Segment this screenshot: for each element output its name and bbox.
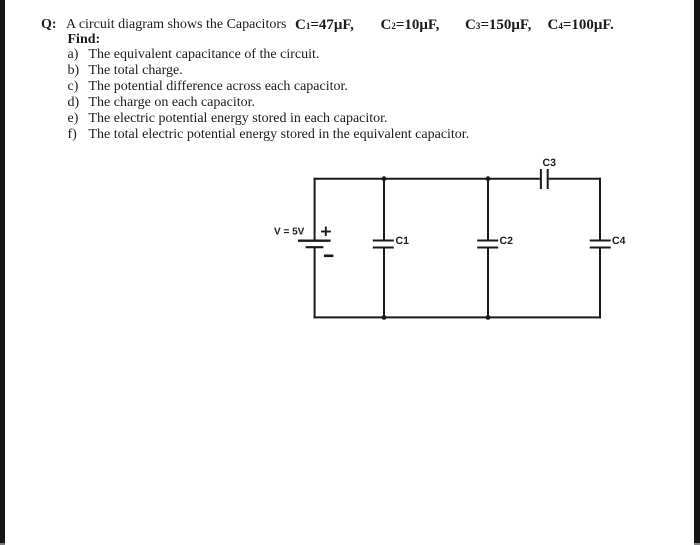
junction node B (top of C2) bbox=[486, 176, 491, 181]
capacitor C1 bbox=[373, 241, 394, 248]
wire: right side, top-right corner down to C4 top plate bbox=[599, 178, 601, 241]
junction node C (bottom of C1) bbox=[382, 315, 387, 320]
wire: left side, top-left corner down to battery + plate bbox=[314, 178, 316, 241]
wire: C2 bottom plate down to bottom wire bbox=[487, 248, 489, 318]
wire: C1 bottom plate down to bottom wire bbox=[383, 248, 385, 318]
battery V1 (V = 5V): long positive plate bbox=[298, 239, 331, 241]
wire: node A to node B (top of C2) bbox=[384, 178, 488, 180]
wire: bottom of C2 to bottom-right corner bbox=[488, 316, 601, 318]
battery plus sign bbox=[321, 227, 331, 237]
svg-text:C3: C3 bbox=[543, 157, 557, 169]
svg-text:C1: C1 bbox=[396, 235, 410, 247]
wire: C2 branch, node B down to C2 top plate bbox=[487, 179, 489, 241]
svg-text:V = 5V: V = 5V bbox=[274, 227, 305, 238]
wire: bottom-left corner to bottom of C1 bbox=[314, 316, 384, 318]
junction node D (bottom of C2) bbox=[486, 315, 491, 320]
svg-text:C4: C4 bbox=[612, 235, 626, 247]
wire: top-left corner to node A (top of C1) bbox=[314, 178, 384, 180]
battery V1: short negative plate bbox=[306, 246, 324, 248]
wire: C4 bottom plate down to bottom-right corner bbox=[599, 248, 601, 319]
junction node A (top of C1) bbox=[382, 176, 387, 181]
battery minus sign bbox=[324, 255, 334, 258]
wire: node B to left plate of C3 bbox=[488, 178, 540, 180]
wire: C1 branch, node A down to C1 top plate bbox=[383, 179, 385, 241]
wire: bottom of C1 to bottom of C2 bbox=[384, 316, 488, 318]
wire: battery - plate down to bottom-left corner bbox=[314, 247, 316, 318]
svg-text:C2: C2 bbox=[500, 235, 514, 247]
capacitor C2 bbox=[477, 241, 498, 248]
capacitor C3 (horizontal, in top wire) bbox=[541, 169, 548, 189]
wire: right plate of C3 to top-right corner bbox=[549, 178, 601, 180]
capacitor C4 bbox=[590, 241, 611, 248]
